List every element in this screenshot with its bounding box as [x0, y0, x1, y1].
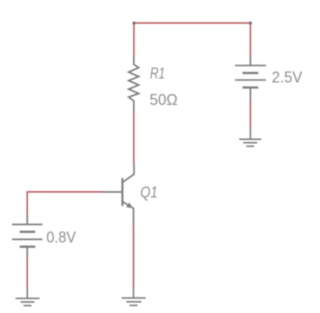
wire top loop from R1 top to V2 top	[134, 23, 251, 57]
wire Q1 base to B	[27, 192, 102, 215]
svg-text:Q1: Q1	[140, 184, 158, 201]
svg-text:R1: R1	[150, 65, 165, 82]
transistor Q1	[102, 164, 134, 224]
ground under V2	[239, 127, 261, 147]
node corner dot right	[249, 22, 252, 25]
ground under V1	[16, 289, 40, 306]
svg-text:50Ω: 50Ω	[150, 92, 178, 109]
battery V2 2.5V	[235, 56, 266, 101]
resistor R1	[129, 57, 139, 112]
wire R1 bottom to Q1 collector	[133, 111, 135, 164]
wire Q1 emitter to ground	[133, 224, 135, 288]
wire V2 bottom to ground	[249, 101, 251, 128]
svg-text:0.8V: 0.8V	[46, 230, 76, 247]
wire V1 bottom to ground	[26, 256, 28, 289]
ground under Q1 emitter	[122, 287, 146, 305]
svg-text:2.5V: 2.5V	[272, 70, 303, 87]
node corner dot left	[133, 22, 136, 25]
battery V1 0.8V	[12, 215, 42, 257]
